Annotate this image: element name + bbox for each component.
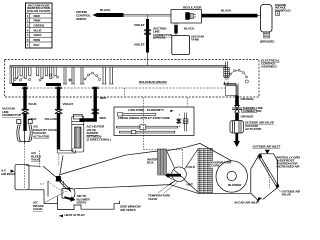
a/c air inlet label	[1, 169, 15, 176]
svg-text:VIOLET: VIOLET	[63, 102, 74, 106]
manifold bar 2	[46, 83, 61, 86]
orange hose upper	[235, 96, 239, 107]
port loops group 1	[11, 67, 31, 84]
right duct outline	[251, 154, 278, 194]
svg-text:RED: RED	[100, 96, 107, 100]
label vacuum line green connector	[153, 26, 173, 39]
funnel to in-car inlet	[251, 188, 278, 200]
svg-text:BOX: BOX	[147, 161, 154, 165]
node: hose-to-valve dashed	[58, 154, 60, 166]
check valve thread	[264, 32, 270, 38]
a/c exhaust valve vacuum actuator	[17, 120, 32, 144]
thick black hose (cruise)	[98, 13, 124, 17]
blower circle	[216, 161, 247, 192]
label HOT	[187, 182, 193, 186]
dashed drop from actuator	[24, 143, 26, 189]
svg-text:BLUE: BLUE	[29, 102, 37, 106]
housing left wall	[29, 181, 58, 204]
outside air valve vacuum actuator	[230, 121, 244, 134]
svg-text:ACTUATOR: ACTUATOR	[245, 127, 262, 131]
arrow to cruise servo	[93, 13, 98, 17]
svg-text:(BRONZE): (BRONZE)	[260, 40, 274, 44]
label air to blower vents	[77, 194, 91, 205]
yellow hose elbow to heater valve	[57, 148, 75, 153]
svg-text:TANK: TANK	[191, 37, 200, 41]
connector bracket	[224, 82, 239, 96]
label VIOLET (lower)	[134, 43, 145, 47]
svg-text:ACTUATOR: ACTUATOR	[33, 134, 50, 138]
hose connector (blue)	[22, 109, 30, 114]
housing bottom duct profile	[58, 197, 120, 210]
label a/c exhaust valve vacuum actuator	[33, 125, 57, 139]
hose connector (violet mid)	[55, 109, 63, 114]
gray hose below connector	[23, 113, 26, 131]
heat outlet arrow	[59, 215, 63, 218]
contacts group 1	[14, 76, 31, 81]
switch assembly top rail	[10, 64, 227, 66]
svg-text:GRAY: GRAY	[29, 117, 38, 121]
legend snowflake	[176, 118, 181, 124]
label engine intake manifold	[275, 3, 291, 13]
svg-text:VIOLET: VIOLET	[134, 23, 145, 27]
legend hose row 2	[116, 125, 177, 130]
vent capsule protrusion	[62, 189, 75, 199]
svg-text:VIOLET: VIOLET	[134, 43, 145, 47]
hose regulator to tank	[174, 23, 176, 26]
svg-text:REGULATOR: REGULATOR	[183, 6, 202, 10]
flap pivot dots	[258, 154, 262, 159]
rotary contacts right	[230, 69, 249, 83]
svg-text:CONNECTOR: CONNECTOR	[2, 113, 22, 117]
label BLACK (manifold hose)	[221, 9, 232, 13]
table rows	[27, 14, 45, 47]
thermo line connector (bowtie)	[232, 105, 242, 113]
a/c air inlet arrow	[11, 170, 15, 173]
label VIOLET (upper)	[134, 23, 145, 27]
leader temperature valve	[158, 182, 177, 193]
svg-text:ASSEMBLY: ASSEMBLY	[261, 65, 278, 69]
table header text	[27, 3, 51, 13]
svg-text:GREEN: GREEN	[34, 24, 45, 28]
yellow hose below connector	[57, 113, 60, 149]
label heat outlet	[65, 213, 86, 217]
label REGULATOR	[183, 6, 202, 10]
label outside air inlet	[253, 145, 281, 149]
svg-text:BLUE: BLUE	[34, 28, 42, 32]
evaporator (hatched block)	[198, 148, 213, 193]
svg-text:COLD: COLD	[187, 165, 196, 169]
regulator internal valve	[186, 13, 197, 20]
label GRAY	[29, 117, 38, 121]
in car air inlet arrow	[257, 197, 263, 202]
svg-text:→ ECONOMY: → ECONOMY	[143, 108, 163, 112]
svg-text:SERVO: SERVO	[76, 17, 87, 21]
svg-text:AIR INLET: AIR INLET	[1, 172, 15, 176]
housing top edge to funnel	[26, 165, 41, 168]
dashed internal lines	[40, 151, 64, 189]
label BLUE	[29, 102, 37, 106]
svg-text:OUTSIDE AIR INLET: OUTSIDE AIR INLET	[253, 145, 281, 149]
label partially open	[277, 156, 303, 169]
spare ports	[63, 67, 75, 84]
unit top edge left	[61, 143, 232, 174]
svg-text:VALVE: VALVE	[148, 197, 157, 201]
svg-text:BLACK: BLACK	[184, 27, 195, 31]
temp flap bar (black)	[165, 173, 169, 178]
label BLACK (tank hose)	[184, 27, 195, 31]
outside air inlet down arrow	[265, 150, 270, 154]
legend hose row 3	[119, 130, 175, 133]
leader outside air valve	[277, 188, 281, 192]
label outside air valve vacuum actuator	[245, 121, 274, 132]
red hose from switch	[92, 87, 98, 88]
svg-text:CORE: CORE	[211, 164, 220, 168]
svg-text:RED: RED	[34, 14, 41, 18]
thick black hose regulator to check valve	[202, 14, 258, 18]
outside air valve flap (double line)	[259, 157, 278, 187]
hose connector (violet)	[144, 30, 151, 35]
label YELLOW	[44, 117, 57, 121]
svg-text:BLK: BLK	[34, 43, 41, 47]
legend hose row 1	[117, 113, 156, 116]
svg-text:RED: RED	[100, 116, 107, 120]
a/c heater valve body	[72, 114, 84, 152]
air mix bowtie left	[167, 151, 175, 180]
legend tiny header	[128, 108, 165, 112]
label evaporator core	[211, 161, 225, 168]
wire to regulator	[124, 13, 172, 15]
label THERMO LINE CONNECTOR	[242, 106, 263, 113]
label ORANGE	[241, 97, 254, 101]
flap swing arc dashed	[49, 181, 69, 192]
funnel V	[43, 156, 63, 178]
svg-text:BLACK: BLACK	[100, 8, 111, 12]
contacts group 2	[39, 74, 59, 81]
svg-text:(GREEN): (GREEN)	[153, 36, 165, 40]
svg-text:GRAY: GRAY	[34, 33, 43, 37]
svg-text:ORANGE: ORANGE	[241, 97, 254, 101]
label a/c intake valve	[33, 201, 44, 212]
svg-text:FRESH GREEN OUTLET STOP CON: FRESH GREEN OUTLET STOP CONE	[118, 116, 170, 120]
node: dashed junction tick	[124, 88, 126, 96]
unit bottom edge	[74, 185, 251, 194]
rotary contacts 3	[84, 72, 101, 81]
label side window air vents	[120, 205, 141, 212]
port loops group 2	[37, 67, 57, 78]
label heater core	[147, 158, 158, 165]
red hose elbow	[81, 113, 95, 122]
legend slider valve	[183, 113, 188, 132]
svg-text:BLACK: BLACK	[221, 9, 232, 13]
label a/c heater valve	[87, 125, 111, 142]
leader intake valve to flap	[45, 193, 65, 203]
svg-text:(2 DIRECTIONAL): (2 DIRECTIONAL)	[87, 138, 111, 142]
internal dashed divider	[30, 87, 225, 89]
flap door (double line with arrowhead)	[60, 180, 70, 190]
dashed line legend to unit (left)	[144, 98, 188, 167]
svg-text:BLOWER: BLOWER	[228, 183, 242, 187]
valve swing arc (dashed)	[258, 159, 270, 190]
label VIOLET (mid)	[63, 102, 74, 106]
pushbutton control dashed enclosure	[5, 60, 260, 98]
label outside air valve	[282, 190, 302, 197]
right switch (electrical) vertical	[224, 62, 229, 80]
color chart table	[26, 3, 53, 48]
label bulkhead area	[139, 80, 167, 84]
svg-text:YELLOW: YELLOW	[44, 117, 57, 121]
label blower	[228, 183, 242, 187]
relay block outline	[226, 86, 237, 96]
blue hose from manifold bar 1	[24, 86, 26, 88]
boxed letter A	[276, 11, 280, 15]
svg-text:(COLOR CHART): (COLOR CHART)	[27, 9, 51, 13]
legend box	[114, 107, 194, 136]
svg-text:BRN: BRN	[34, 38, 41, 42]
heater core (hatched)	[158, 149, 167, 175]
svg-text:ORANGE: ORANGE	[241, 115, 254, 119]
check valve body	[261, 5, 273, 33]
legend fan glyph	[170, 110, 174, 112]
flap pivot (black)	[56, 176, 62, 182]
label in car air inlet	[235, 200, 260, 204]
svg-text:VALVE: VALVE	[282, 193, 291, 197]
actuator stem arrow	[234, 133, 240, 147]
switch block 3	[80, 67, 85, 84]
svg-text:VALVE: VALVE	[33, 207, 42, 211]
a/c bleed valve label	[31, 151, 42, 162]
legend tiny subheader	[118, 116, 170, 120]
svg-text:PINK: PINK	[34, 19, 42, 23]
air mix bowtie right	[169, 149, 198, 192]
label VACUUM TANK	[191, 34, 204, 41]
hose connector (red)	[92, 109, 100, 114]
regulator box	[171, 10, 202, 24]
label electrical control assembly	[261, 59, 280, 69]
svg-text:HOT: HOT	[187, 182, 193, 186]
violet hose vertical	[146, 19, 149, 53]
label (BRONZE)	[260, 40, 274, 44]
cruise control servo label	[76, 10, 91, 21]
svg-text:VALVE: VALVE	[31, 158, 40, 162]
svg-text:INCREASED AIR: INCREASED AIR	[277, 165, 301, 169]
label BLACK (cruise hose)	[100, 8, 111, 12]
label ORANGE lower	[241, 115, 254, 119]
svg-text:LOW ZONE: LOW ZONE	[128, 108, 144, 112]
svg-text:IN CAR AIR INLET: IN CAR AIR INLET	[235, 200, 260, 204]
label RED (at box exit)	[100, 96, 107, 100]
manifold bar 1	[12, 83, 27, 86]
label vacuum line connector (left)	[2, 107, 22, 118]
temperature valve circle	[172, 167, 187, 182]
inlet plenum	[15, 164, 29, 190]
label COLD	[187, 165, 196, 169]
air to blower vents arrow	[64, 196, 75, 201]
svg-text:BULKHEAD (REAR): BULKHEAD (REAR)	[139, 80, 167, 84]
port pair right of block 3	[102, 67, 114, 84]
svg-text:HEAT OUTLET: HEAT OUTLET	[65, 213, 86, 217]
vacuum tank	[172, 36, 190, 55]
orange hose lower	[235, 113, 239, 121]
violet hose from manifold bar 2	[58, 86, 60, 88]
label temperature valve	[148, 194, 170, 201]
svg-text:VENTS: VENTS	[77, 201, 87, 205]
label RED	[100, 116, 107, 120]
svg-text:AIR VENTS: AIR VENTS	[120, 208, 136, 212]
